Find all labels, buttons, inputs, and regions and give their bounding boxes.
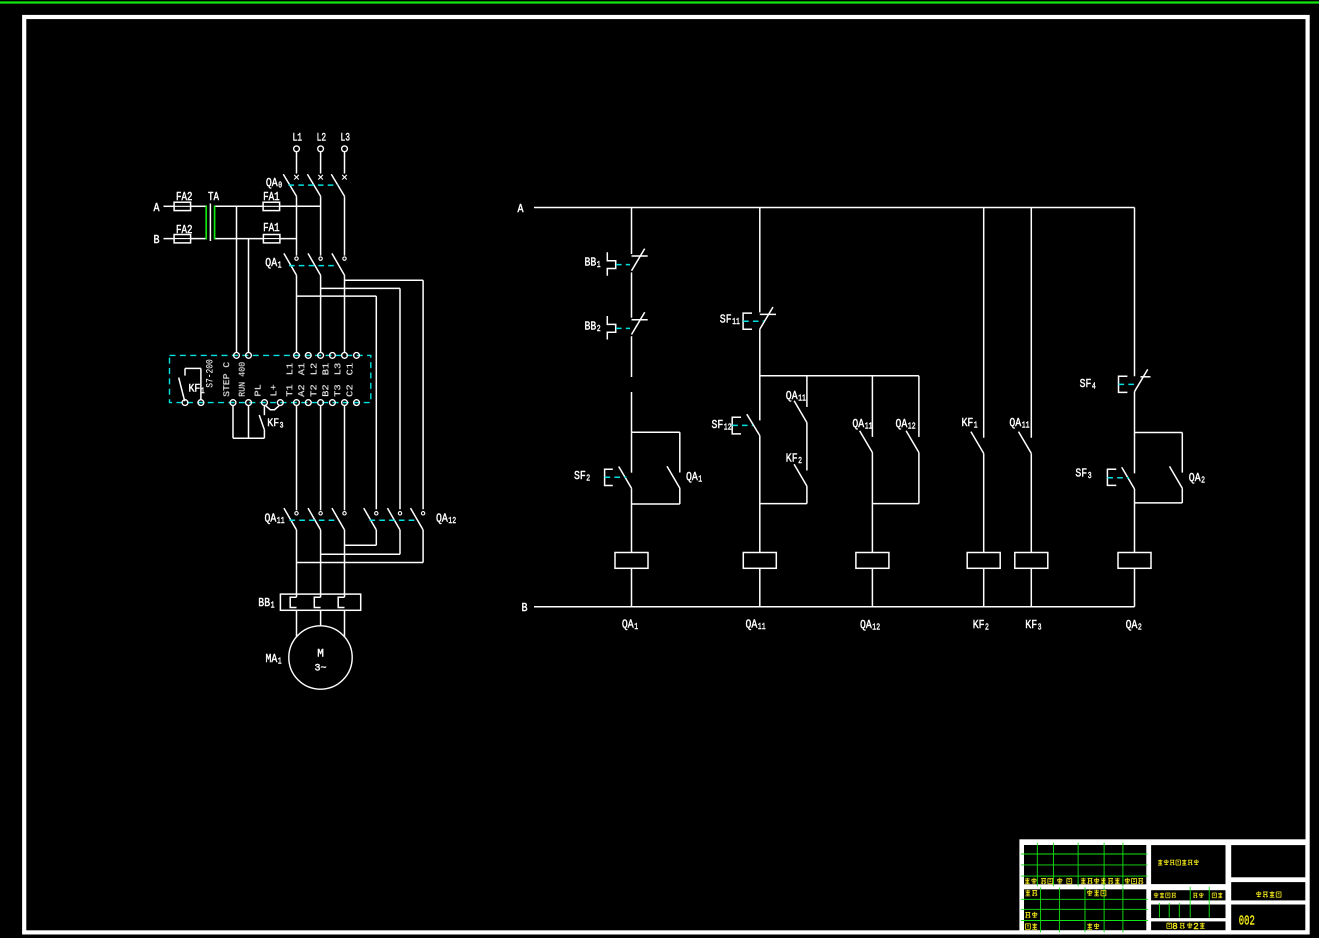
wire QA12 pole3 to motor phase1 xyxy=(297,530,424,563)
svg-text:QA: QA xyxy=(622,618,634,632)
SF2 actuator dashed link xyxy=(605,476,627,478)
contact QA11 rung3 label xyxy=(852,417,872,432)
wire QA12 pole1 to motor phase3 xyxy=(345,530,377,545)
coil QA12 designation xyxy=(860,618,880,633)
latching contact QA2 label xyxy=(1189,471,1205,486)
contactor QA1 linkage dashed line xyxy=(289,265,338,267)
svg-text:1: 1 xyxy=(278,656,282,667)
svg-text:0: 0 xyxy=(278,180,282,191)
wire QA12 pole2 to motor phase2 xyxy=(321,530,400,554)
svg-text:2: 2 xyxy=(1193,921,1199,932)
wire QA11 rung5 to coil KF3 xyxy=(1030,453,1032,552)
wire branch to contact QA1 xyxy=(679,432,681,472)
SF4 button actuator xyxy=(1119,376,1128,392)
seal branch rung6 bottom wire xyxy=(1135,502,1183,504)
BB1 heater element phase2 xyxy=(314,597,320,607)
NO button SF2 xyxy=(619,467,632,489)
wire PLC RUN 400 bottom to common rail xyxy=(248,406,250,439)
svg-text:BB: BB xyxy=(585,320,597,334)
contactor QA12 linkage dashed line xyxy=(370,519,418,521)
svg-text:KF: KF xyxy=(267,418,279,430)
svg-text:B2: B2 xyxy=(320,384,331,397)
PLC pin label T2 xyxy=(309,384,320,397)
coil QA1 designation xyxy=(622,618,638,633)
start button SF3 label xyxy=(1075,467,1091,482)
svg-text:QA: QA xyxy=(896,417,908,431)
wire KF2 down xyxy=(806,486,808,504)
PLC bottom terminals xyxy=(182,400,359,406)
wire FA2 top to transformer TA xyxy=(191,205,206,207)
svg-text:QA: QA xyxy=(686,470,698,484)
svg-text:KF: KF xyxy=(962,416,974,430)
contactor QA12 label xyxy=(436,512,456,527)
wire QA1 pole2 to PLC L2 xyxy=(320,275,322,352)
coil KF3 xyxy=(1015,553,1048,569)
NO contact QA12 xyxy=(906,431,919,453)
fuse FA2 top label xyxy=(176,191,193,204)
transformer TA secondary winding xyxy=(214,205,216,239)
title block drawing name text xyxy=(1256,891,1281,897)
wire L1 to breaker QA0 xyxy=(296,152,298,174)
svg-text:11: 11 xyxy=(1022,420,1030,431)
svg-text:L3: L3 xyxy=(341,133,351,145)
circuit breaker QA0 label xyxy=(266,176,282,191)
wire QA11 pole3 to overload BB1 xyxy=(344,530,346,597)
svg-text:3: 3 xyxy=(1088,470,1092,481)
BB1 actuator dashed link xyxy=(616,264,630,266)
svg-text:002: 002 xyxy=(1239,914,1255,929)
svg-text:L1: L1 xyxy=(293,133,303,145)
NO contact QA2 xyxy=(1170,466,1183,488)
svg-text:11: 11 xyxy=(758,621,766,632)
svg-text:SF: SF xyxy=(574,469,586,483)
fuse FA1 top label xyxy=(263,191,280,204)
BB2 trip actuator xyxy=(607,316,615,340)
svg-text:STEP C: STEP C xyxy=(221,362,232,397)
seal branch bottom wire rung2 xyxy=(760,503,807,505)
svg-text:QA: QA xyxy=(266,176,278,190)
PLC pin label RUN 400 xyxy=(237,362,248,397)
fuse FA1 top xyxy=(263,202,280,210)
NO contact QA11 rung3 xyxy=(860,431,873,453)
BB1 heater element phase3 xyxy=(338,597,344,607)
wire join to coil QA12 xyxy=(871,504,873,553)
wire A to fuse FA2 top xyxy=(164,205,175,207)
svg-text:4: 4 xyxy=(1092,381,1096,392)
latching contact QA1 label xyxy=(686,470,702,485)
svg-text:2: 2 xyxy=(586,473,590,484)
wire B to fuse FA2 bottom xyxy=(164,238,175,240)
motor MA1 label xyxy=(266,652,282,667)
transformer TA core xyxy=(209,204,211,242)
breaker QA0 pole 1 xyxy=(283,174,299,196)
wire L2 to breaker QA0 xyxy=(320,152,322,174)
breaker QA0 linkage dashed line xyxy=(289,184,339,186)
wire KF1 to coil KF2 xyxy=(983,453,985,552)
PLC pin label C1 xyxy=(345,362,356,375)
svg-text:QA: QA xyxy=(746,618,758,632)
svg-text:8: 8 xyxy=(1172,921,1178,932)
wire common rail below PLC xyxy=(233,437,264,439)
svg-text:12: 12 xyxy=(448,515,456,526)
PLC pin label L1 xyxy=(284,362,295,375)
wire FA1 bottom to phase L1 xyxy=(280,238,297,240)
svg-text:12: 12 xyxy=(724,422,732,433)
wire bus A to contact QA11 rung5 xyxy=(1030,208,1032,438)
svg-text:1: 1 xyxy=(271,600,275,611)
SF11 button actuator xyxy=(743,313,752,329)
contact KF3 below PLC xyxy=(259,406,264,439)
svg-text:KF: KF xyxy=(973,618,985,632)
svg-text:B: B xyxy=(522,602,528,615)
terminal L3 circle xyxy=(342,146,348,152)
wire QA11 rung3 down xyxy=(871,453,873,504)
PLC pin label L2 xyxy=(309,362,320,375)
fuse FA1 bottom label xyxy=(263,222,280,235)
wire QA1 pole3 to PLC L3 xyxy=(344,275,346,352)
contact KF3 label xyxy=(267,418,283,431)
svg-text:1: 1 xyxy=(278,260,282,271)
branch wire rung2 xyxy=(760,375,919,377)
wire QA1 pole1 to PLC L1 xyxy=(296,275,298,352)
seal branch rung6 top wire xyxy=(1135,432,1183,434)
node B bus label xyxy=(522,602,528,615)
svg-text:QA: QA xyxy=(265,256,277,270)
contact QA12 label xyxy=(896,417,916,432)
contactor QA1 label xyxy=(265,256,281,271)
wire branch to contact QA12 xyxy=(918,376,920,437)
svg-text:KF: KF xyxy=(189,384,201,396)
svg-text:QA: QA xyxy=(1126,618,1138,632)
SF11 actuator dashed link xyxy=(743,320,764,322)
wire branch to contact QA11 rung3 xyxy=(871,376,873,437)
svg-text:3~: 3~ xyxy=(314,664,326,675)
stop button SF11 label xyxy=(720,313,740,328)
node A bus label xyxy=(518,203,524,216)
title block signature labels xyxy=(1025,890,1106,929)
green top border line xyxy=(0,1,1319,3)
svg-text:12: 12 xyxy=(908,421,916,432)
relay contact KF1 inside PLC xyxy=(179,368,201,401)
PLC pin label A2 xyxy=(296,384,307,397)
terminal L1 label xyxy=(293,133,303,145)
jumper PL to L+ xyxy=(266,406,279,410)
svg-text:1: 1 xyxy=(634,621,638,632)
svg-text:SF: SF xyxy=(720,313,732,327)
svg-text:KF: KF xyxy=(786,452,798,466)
svg-text:S7-200: S7-200 xyxy=(205,359,216,388)
title block drawing number 002 xyxy=(1239,914,1255,929)
NC button SF4 xyxy=(1135,369,1151,391)
contactor QA11 pole 3 xyxy=(332,508,346,530)
svg-text:QA: QA xyxy=(852,417,864,431)
wire L3 to breaker QA0 xyxy=(344,152,346,174)
wire coil QA1 to bus B xyxy=(631,568,633,607)
svg-text:3: 3 xyxy=(1038,622,1042,633)
coil KF2 xyxy=(967,553,1000,569)
wire contact QA2 down xyxy=(1181,488,1183,503)
SF3 actuator dashed link xyxy=(1107,477,1129,479)
svg-text:A2: A2 xyxy=(296,384,307,397)
PLC pin label B1 xyxy=(320,362,331,375)
wire bus A to contact BB1 xyxy=(631,208,633,255)
svg-text:A: A xyxy=(518,203,524,216)
svg-text:11: 11 xyxy=(865,421,873,432)
control bus A xyxy=(534,207,1135,209)
svg-text:B: B xyxy=(154,234,160,247)
coil QA1 xyxy=(615,553,648,569)
contact QA11 rung5 label xyxy=(1009,416,1029,431)
SF12 actuator dashed link xyxy=(732,424,753,426)
wire QA11 pole2 to overload BB1 xyxy=(320,530,322,597)
contactor QA11 label xyxy=(265,512,285,527)
wire FA2 bottom to transformer TA xyxy=(191,238,206,240)
wire PLC STEP C bottom to common rail xyxy=(232,406,234,439)
contact BB1 label xyxy=(585,256,601,271)
svg-text:SF: SF xyxy=(712,418,724,432)
node B label xyxy=(154,234,160,247)
BB1 heater element phase1 xyxy=(290,597,296,607)
wire phase2 crossover to QA12 pole2 xyxy=(321,288,400,509)
NO button SF3 xyxy=(1122,467,1135,489)
relay contact KF1 label xyxy=(189,384,205,397)
seal-in branch wire bottom xyxy=(632,503,680,505)
wire contact QA1 down xyxy=(679,488,681,504)
coil QA2 designation xyxy=(1126,618,1142,633)
PLC top terminals xyxy=(234,353,360,359)
terminal L1 circle xyxy=(294,146,300,152)
title block header row text xyxy=(1025,878,1143,884)
terminal L3 label xyxy=(341,133,351,145)
wire SF2 to coil QA1 xyxy=(631,488,633,552)
svg-text:2: 2 xyxy=(1138,622,1142,633)
wire phase3 crossover to QA12 pole3 xyxy=(345,280,424,509)
contactor QA12 pole 3 xyxy=(411,508,425,530)
contactor QA11 pole 1 xyxy=(284,508,298,530)
wire coil KF2 to bus B xyxy=(983,568,985,607)
wire PLC T3 to contactor QA11 pole3 xyxy=(344,406,346,511)
seal-in branch wire top xyxy=(632,431,680,433)
contact QA11 label xyxy=(786,389,806,404)
title block material name text xyxy=(1158,860,1199,866)
wire junction B to PLC RUN 400 input xyxy=(248,239,250,353)
breaker QA0 pole 3 xyxy=(331,174,347,196)
transformer TA label xyxy=(208,191,219,204)
wire SF11 to SF12 xyxy=(759,329,761,420)
rung3 parallel join wire xyxy=(872,503,919,505)
BB1 trip actuator xyxy=(607,252,615,275)
NO contact KF1 xyxy=(971,432,984,454)
contact KF2 label xyxy=(786,452,802,467)
contactor QA1 pole 3 xyxy=(332,253,346,275)
svg-text:T2: T2 xyxy=(309,384,320,397)
NC contact BB1 xyxy=(632,249,648,271)
coil KF2 designation xyxy=(973,618,989,633)
wire FA1 top to phase L2 xyxy=(280,205,321,207)
title block green revision grid xyxy=(1021,843,1209,933)
svg-text:QA: QA xyxy=(436,512,448,526)
svg-text:KF: KF xyxy=(1025,618,1037,632)
contactor QA11 pole 2 xyxy=(308,508,322,530)
wire QA11 pole1 to overload BB1 xyxy=(296,530,298,597)
svg-text:1: 1 xyxy=(597,259,601,270)
wire bus A to contact SF11 xyxy=(759,208,761,313)
wire PLC T1 to contactor QA11 pole1 xyxy=(296,406,298,511)
svg-text:SF: SF xyxy=(1075,467,1087,481)
wire QA0 pole3 to contactor QA1 pole3 xyxy=(344,196,346,255)
transformer TA primary winding xyxy=(205,205,207,239)
motor MA1 xyxy=(289,626,352,689)
fuse FA2 bottom label xyxy=(176,224,193,237)
NC contact BB2 xyxy=(632,312,648,334)
title block white grid xyxy=(1019,839,1307,932)
SF4 actuator dashed link xyxy=(1119,383,1136,385)
contactor QA1 pole 1 xyxy=(284,253,298,275)
wire QA0 pole1 to contactor QA1 pole1 xyxy=(296,196,298,255)
svg-text:BB: BB xyxy=(258,596,270,610)
control bus B xyxy=(534,606,1135,608)
svg-text:C1: C1 xyxy=(345,362,356,375)
NO contact KF2 xyxy=(794,464,807,486)
svg-text:2: 2 xyxy=(798,455,802,466)
title block stage mark row xyxy=(1154,893,1222,898)
svg-text:B1: B1 xyxy=(320,362,331,375)
wire SF4 to SF3 xyxy=(1134,392,1136,433)
PLC S7-200 dashed enclosure xyxy=(170,355,371,402)
PLC pin label T3 xyxy=(332,384,343,397)
svg-text:L+: L+ xyxy=(268,384,279,397)
wire QA0 pole2 to contactor QA1 pole2 xyxy=(320,196,322,255)
NO contact QA11 seal xyxy=(794,401,807,423)
fuse FA1 bottom xyxy=(263,235,280,243)
SF3 button actuator xyxy=(1107,469,1116,485)
wire bus A to contact KF1 xyxy=(983,208,985,438)
svg-text:2: 2 xyxy=(1201,475,1205,486)
PLC name S7-200 xyxy=(205,359,216,388)
terminal L2 circle xyxy=(318,146,324,152)
contactor QA12 pole 1 xyxy=(364,508,378,530)
wire branch to contact QA11 xyxy=(806,376,808,407)
svg-text:RUN 400: RUN 400 xyxy=(237,362,248,397)
thermal overload relay BB1 box xyxy=(280,594,360,610)
start button SF2 label xyxy=(574,469,590,484)
PLC pin label PL xyxy=(252,384,263,397)
svg-text:11: 11 xyxy=(798,393,806,404)
wire coil QA12 to bus B xyxy=(871,568,873,607)
svg-text:FA1: FA1 xyxy=(263,222,280,235)
BB2 actuator dashed link xyxy=(616,327,630,329)
svg-text:A: A xyxy=(154,202,160,215)
wire coil QA11 to bus B xyxy=(759,568,761,607)
svg-text:MA: MA xyxy=(266,652,278,666)
wire phase1 crossover to QA12 pole1 xyxy=(297,296,377,509)
coil KF3 designation xyxy=(1025,618,1041,633)
wire BB1 to motor terminal 2 xyxy=(320,610,322,625)
wire BB1 to motor terminal 3 xyxy=(344,610,346,637)
svg-text:L1: L1 xyxy=(284,362,295,375)
wire bus A to button SF4 xyxy=(1134,208,1136,377)
NO button SF12 xyxy=(747,414,760,435)
contact KF1 label xyxy=(962,416,978,431)
wire BB1 to BB2 xyxy=(631,272,633,317)
svg-text:SF: SF xyxy=(1080,377,1092,391)
svg-text:T1: T1 xyxy=(284,384,295,397)
svg-text:L3: L3 xyxy=(332,362,343,375)
coil QA12 xyxy=(856,553,889,569)
coil QA11 xyxy=(743,553,776,569)
wire QA12 down xyxy=(918,453,920,504)
wire TA secondary top to fuse FA1 top xyxy=(215,205,263,207)
svg-text:QA: QA xyxy=(265,512,277,526)
svg-text:L2: L2 xyxy=(309,362,320,375)
svg-text:2: 2 xyxy=(597,323,601,334)
SF12 button actuator xyxy=(732,417,741,434)
PLC pin label STEP C xyxy=(221,362,232,397)
wire PLC T2 to contactor QA11 pole2 xyxy=(320,406,322,511)
svg-text:BB: BB xyxy=(585,256,597,270)
svg-text:QA: QA xyxy=(1009,416,1021,430)
button SF12 label xyxy=(712,418,732,433)
thermal overload BB1 label xyxy=(258,596,274,611)
wire QA11 to KF2 xyxy=(806,423,808,471)
PLC pin label T1 xyxy=(284,384,295,397)
breaker QA0 pole 2 xyxy=(307,174,323,196)
terminal L2 label xyxy=(317,133,327,145)
svg-text:QA: QA xyxy=(1189,471,1201,485)
SF2 button actuator xyxy=(605,469,613,485)
fuse FA2 top xyxy=(174,202,191,210)
PLC pin label L+ xyxy=(268,384,279,397)
svg-text:11: 11 xyxy=(277,515,285,526)
wire TA secondary bottom to fuse FA1 bottom xyxy=(215,238,263,240)
wire BB1 to motor terminal 1 xyxy=(296,610,298,637)
coil QA11 designation xyxy=(746,618,766,633)
svg-text:TA: TA xyxy=(208,191,219,204)
wire SF3 to coil QA2 xyxy=(1134,489,1136,553)
svg-text:QA: QA xyxy=(786,389,798,403)
svg-text:1: 1 xyxy=(974,420,978,431)
title block sheet count text xyxy=(1167,921,1205,932)
svg-text:PL: PL xyxy=(252,384,263,397)
NC button SF11 xyxy=(760,307,776,329)
wire branch to button SF3 xyxy=(1134,433,1136,474)
svg-text:A1: A1 xyxy=(296,362,307,375)
node A label xyxy=(154,202,160,215)
svg-text:M: M xyxy=(317,649,324,661)
contactor QA12 pole 2 xyxy=(387,508,401,530)
svg-text:2: 2 xyxy=(985,622,989,633)
PLC pin label B2 xyxy=(320,384,331,397)
PLC pin label L3 xyxy=(332,362,343,375)
wire to SF2 rung xyxy=(631,392,633,432)
wire BB2 down xyxy=(631,336,633,377)
PLC pin label C2 xyxy=(345,384,356,397)
PLC pin label A1 xyxy=(296,362,307,375)
wire branch to contact QA2 xyxy=(1181,433,1183,473)
svg-text:C2: C2 xyxy=(345,384,356,397)
svg-text:3: 3 xyxy=(280,421,284,431)
svg-text:QA: QA xyxy=(860,618,872,632)
wire SF12 to coil QA11 xyxy=(759,436,761,553)
wire coil KF3 to bus B xyxy=(1030,568,1032,607)
svg-text:1: 1 xyxy=(698,474,702,485)
fuse FA2 bottom xyxy=(174,235,191,243)
stop button SF4 label xyxy=(1080,377,1096,392)
wire branch to start button SF2 xyxy=(631,432,633,473)
wire coil QA2 to bus B xyxy=(1134,568,1136,607)
svg-text:T3: T3 xyxy=(332,384,343,397)
contact BB2 label xyxy=(585,320,601,335)
